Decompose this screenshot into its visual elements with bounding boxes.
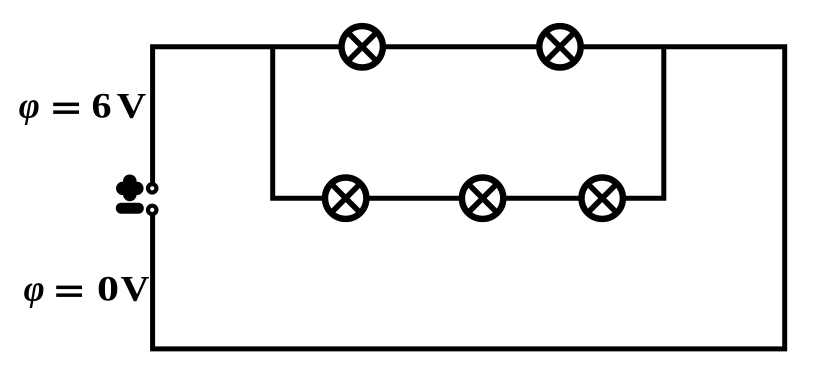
svg-text:V: V xyxy=(117,85,147,125)
lamp L3 (middle branch, left) xyxy=(325,178,366,219)
wire inner parallel branch (verticals + middle horizontal) xyxy=(273,47,664,198)
lamp L5 (middle branch, right) xyxy=(582,178,623,219)
terminal (bottom, - pole) xyxy=(148,206,156,214)
svg-text:φ: φ xyxy=(24,268,45,308)
svg-text:φ: φ xyxy=(19,85,40,125)
lamp L1 (top left) xyxy=(342,26,383,67)
plus polarity mark xyxy=(123,181,137,194)
svg-text:0: 0 xyxy=(97,268,119,308)
wire outer loop (left wire has gap at terminals) xyxy=(153,47,785,349)
label phi = 0 V xyxy=(24,268,150,308)
label phi = 6 V xyxy=(19,85,147,125)
svg-text:V: V xyxy=(121,268,150,308)
minus polarity mark xyxy=(121,203,138,214)
lamp L4 (middle branch, center) xyxy=(462,178,503,219)
svg-text:6: 6 xyxy=(92,85,112,125)
lamp L2 (top right) xyxy=(539,26,580,67)
terminal (top, + pole) xyxy=(148,184,156,192)
